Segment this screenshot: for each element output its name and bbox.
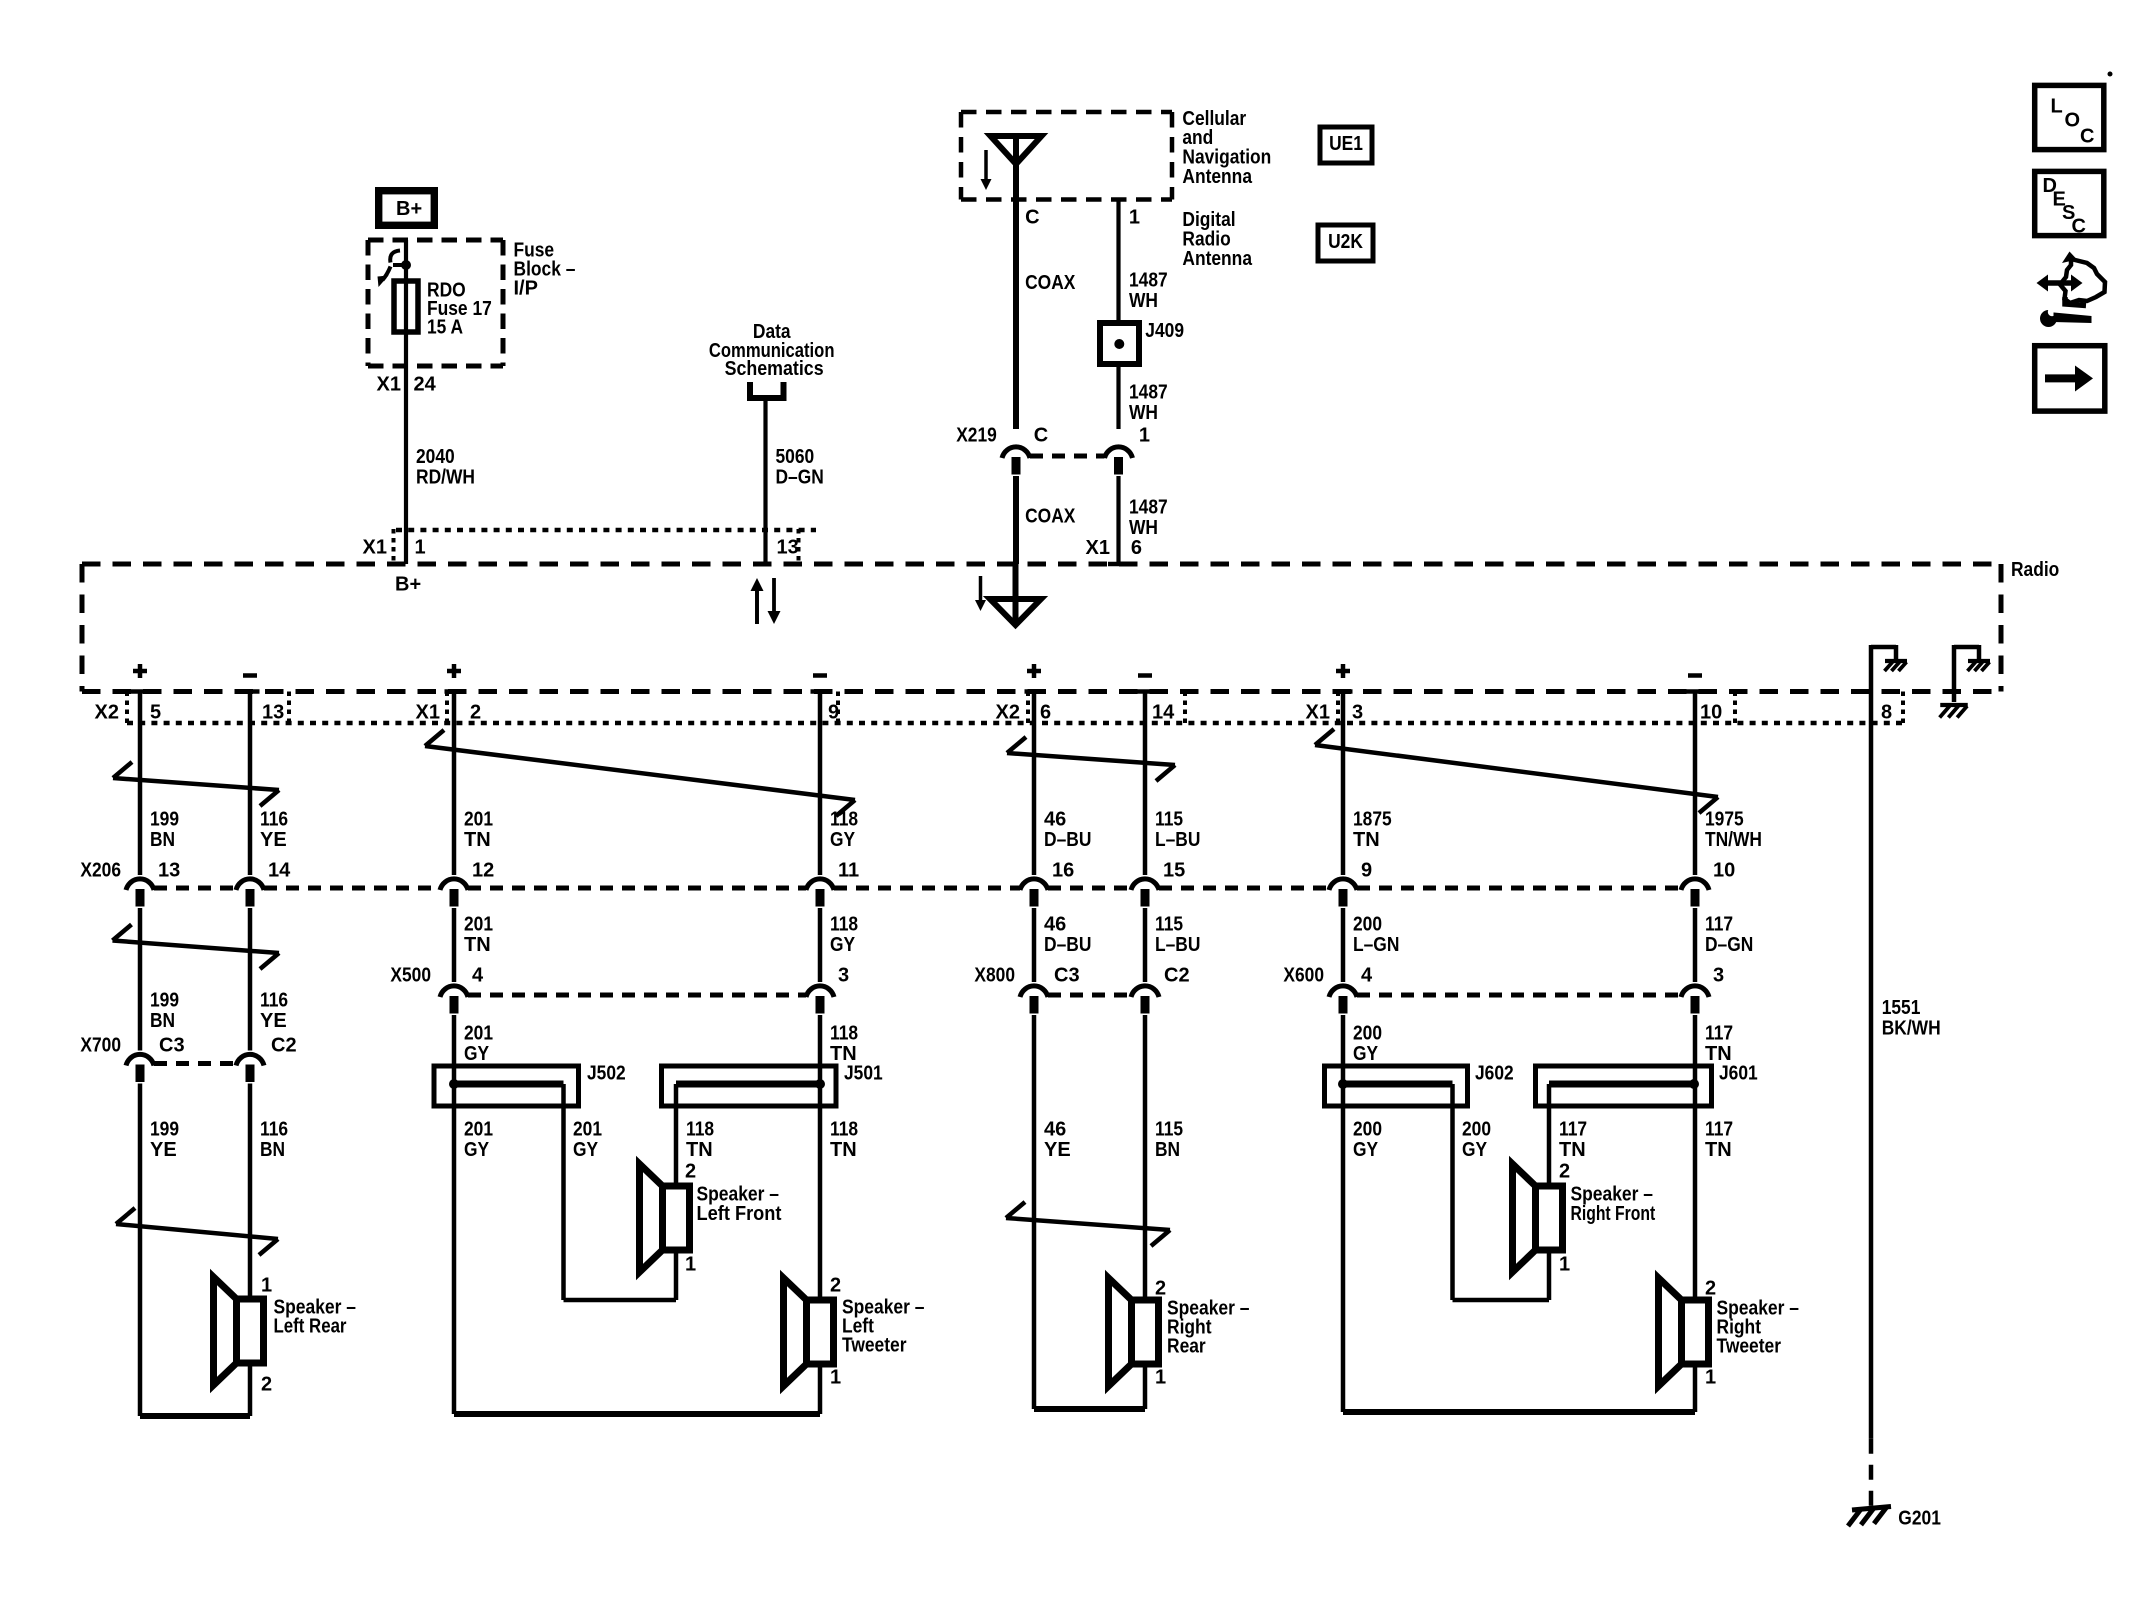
svg-text:Left Front: Left Front [697, 1203, 782, 1225]
svg-text:24: 24 [414, 374, 437, 396]
svg-text:X219: X219 [956, 425, 997, 447]
svg-text:1: 1 [1129, 207, 1140, 229]
svg-text:GY: GY [1462, 1139, 1488, 1161]
svg-text:YE: YE [260, 829, 287, 851]
svg-text:X1: X1 [377, 374, 401, 396]
svg-text:13: 13 [262, 702, 284, 724]
svg-text:1: 1 [685, 1254, 696, 1276]
svg-text:COAX: COAX [1025, 506, 1076, 528]
svg-text:8: 8 [1881, 702, 1892, 724]
svg-text:116: 116 [260, 990, 288, 1012]
svg-text:J602: J602 [1475, 1063, 1514, 1085]
svg-text:TN/WH: TN/WH [1705, 829, 1762, 851]
svg-text:200: 200 [1353, 1023, 1382, 1045]
svg-text:Tweeter: Tweeter [1717, 1336, 1782, 1358]
svg-text:14: 14 [1152, 702, 1175, 724]
svg-text:1487: 1487 [1129, 497, 1168, 519]
svg-text:C: C [1034, 425, 1048, 447]
svg-text:2: 2 [1705, 1278, 1716, 1300]
svg-text:Antenna: Antenna [1182, 248, 1252, 270]
svg-text:2: 2 [261, 1374, 272, 1396]
svg-text:BN: BN [150, 829, 175, 851]
svg-text:11: 11 [838, 860, 859, 882]
svg-text:1487: 1487 [1129, 270, 1168, 292]
svg-text:L–BU: L–BU [1155, 829, 1200, 851]
svg-text:X1: X1 [1086, 537, 1110, 559]
svg-text:15: 15 [1163, 860, 1185, 882]
svg-text:TN: TN [830, 1043, 857, 1065]
svg-text:L: L [2051, 96, 2063, 118]
svg-text:117: 117 [1705, 914, 1733, 936]
svg-text:J601: J601 [1719, 1063, 1758, 1085]
svg-text:BK/WH: BK/WH [1882, 1018, 1941, 1040]
svg-text:C2: C2 [1164, 965, 1190, 987]
svg-text:GY: GY [1353, 1043, 1379, 1065]
svg-text:12: 12 [472, 860, 494, 882]
svg-text:X1: X1 [363, 537, 387, 559]
svg-text:TN: TN [686, 1139, 713, 1161]
svg-text:I/P: I/P [514, 278, 538, 300]
svg-text:116: 116 [260, 809, 288, 831]
svg-text:TN: TN [1353, 829, 1380, 851]
svg-text:D–GN: D–GN [776, 467, 824, 489]
svg-text:201: 201 [464, 809, 493, 831]
svg-text:118: 118 [686, 1119, 714, 1141]
svg-text:X206: X206 [80, 860, 121, 882]
svg-text:B+: B+ [396, 198, 422, 220]
svg-text:3: 3 [1713, 965, 1724, 987]
svg-text:2: 2 [1559, 1161, 1570, 1183]
svg-text:1: 1 [1139, 425, 1150, 447]
svg-text:U2K: U2K [1328, 231, 1363, 253]
svg-text:Left Rear: Left Rear [274, 1316, 347, 1338]
svg-text:GY: GY [464, 1043, 490, 1065]
svg-text:C: C [2072, 216, 2086, 238]
svg-text:6: 6 [1040, 702, 1051, 724]
svg-text:118: 118 [830, 1119, 858, 1141]
svg-text:199: 199 [150, 809, 179, 831]
svg-text:WH: WH [1129, 290, 1158, 312]
svg-text:118: 118 [830, 809, 858, 831]
svg-text:1: 1 [415, 537, 426, 559]
svg-text:TN: TN [464, 934, 491, 956]
svg-text:YE: YE [1044, 1139, 1071, 1161]
svg-text:BN: BN [260, 1139, 285, 1161]
svg-text:COAX: COAX [1025, 272, 1076, 294]
svg-text:UE1: UE1 [1329, 133, 1363, 155]
svg-text:RD/WH: RD/WH [416, 467, 475, 489]
svg-text:46: 46 [1044, 914, 1066, 936]
svg-text:X2: X2 [95, 702, 119, 724]
svg-text:201: 201 [464, 1023, 493, 1045]
svg-text:1551: 1551 [1882, 997, 1921, 1019]
svg-text:46: 46 [1044, 809, 1066, 831]
svg-text:TN: TN [1705, 1139, 1732, 1161]
svg-text:201: 201 [464, 1119, 493, 1141]
svg-text:BN: BN [150, 1010, 175, 1032]
svg-text:199: 199 [150, 1119, 179, 1141]
svg-text:GY: GY [464, 1139, 490, 1161]
svg-text:YE: YE [150, 1139, 177, 1161]
svg-text:TN: TN [1559, 1139, 1586, 1161]
svg-text:1487: 1487 [1129, 382, 1168, 404]
svg-text:1: 1 [261, 1275, 272, 1297]
svg-text:TN: TN [830, 1139, 857, 1161]
svg-text:1: 1 [1705, 1367, 1716, 1389]
svg-text:X700: X700 [80, 1035, 121, 1057]
svg-text:TN: TN [464, 829, 491, 851]
svg-text:2: 2 [830, 1275, 841, 1297]
svg-text:3: 3 [838, 965, 849, 987]
svg-text:6: 6 [1131, 537, 1142, 559]
svg-text:WH: WH [1129, 402, 1158, 424]
svg-text:10: 10 [1700, 702, 1722, 724]
svg-text:1: 1 [1155, 1367, 1166, 1389]
svg-text:TN: TN [1705, 1043, 1732, 1065]
svg-text:16: 16 [1052, 860, 1074, 882]
svg-text:X2: X2 [996, 702, 1020, 724]
svg-text:Tweeter: Tweeter [842, 1335, 907, 1357]
svg-text:C: C [2080, 125, 2094, 147]
svg-text:2: 2 [685, 1161, 696, 1183]
svg-text:13: 13 [158, 860, 180, 882]
svg-text:J501: J501 [844, 1063, 883, 1085]
svg-text:117: 117 [1705, 1119, 1733, 1141]
svg-text:118: 118 [830, 1023, 858, 1045]
svg-text:D–GN: D–GN [1705, 934, 1753, 956]
svg-text:1: 1 [830, 1367, 841, 1389]
svg-text:D–BU: D–BU [1044, 829, 1091, 851]
svg-text:115: 115 [1155, 1119, 1183, 1141]
svg-text:9: 9 [828, 702, 839, 724]
svg-text:200: 200 [1353, 1119, 1382, 1141]
svg-text:4: 4 [472, 965, 484, 987]
svg-text:117: 117 [1705, 1023, 1733, 1045]
svg-text:Schematics: Schematics [725, 358, 824, 380]
svg-text:15 A: 15 A [427, 317, 463, 339]
svg-text:2040: 2040 [416, 446, 455, 468]
svg-text:X1: X1 [1306, 702, 1330, 724]
svg-text:Rear: Rear [1167, 1336, 1206, 1358]
svg-text:J502: J502 [587, 1063, 626, 1085]
svg-text:C3: C3 [1054, 965, 1080, 987]
svg-text:201: 201 [464, 914, 493, 936]
svg-text:J409: J409 [1145, 320, 1184, 342]
svg-text:1: 1 [1559, 1254, 1570, 1276]
svg-text:X1: X1 [416, 702, 440, 724]
svg-text:199: 199 [150, 990, 179, 1012]
svg-text:1875: 1875 [1353, 809, 1392, 831]
svg-text:3: 3 [1352, 702, 1363, 724]
svg-text:10: 10 [1713, 860, 1735, 882]
svg-text:C3: C3 [159, 1035, 185, 1057]
svg-text:YE: YE [260, 1010, 287, 1032]
svg-text:200: 200 [1462, 1119, 1491, 1141]
svg-text:5: 5 [150, 702, 161, 724]
svg-text:C: C [1025, 207, 1039, 229]
svg-text:4: 4 [1361, 965, 1373, 987]
svg-text:117: 117 [1559, 1119, 1587, 1141]
svg-text:X600: X600 [1283, 965, 1324, 987]
svg-text:Antenna: Antenna [1182, 166, 1252, 188]
svg-text:200: 200 [1353, 914, 1382, 936]
svg-text:GY: GY [830, 934, 856, 956]
svg-text:B+: B+ [395, 574, 421, 596]
svg-text:2: 2 [470, 702, 481, 724]
svg-text:201: 201 [573, 1119, 602, 1141]
svg-text:1975: 1975 [1705, 809, 1744, 831]
svg-text:2: 2 [1155, 1278, 1166, 1300]
svg-text:46: 46 [1044, 1119, 1066, 1141]
svg-text:5060: 5060 [776, 446, 815, 468]
svg-text:115: 115 [1155, 809, 1183, 831]
svg-text:G201: G201 [1898, 1508, 1941, 1530]
svg-text:GY: GY [830, 829, 856, 851]
svg-text:L–GN: L–GN [1353, 934, 1399, 956]
svg-text:X500: X500 [390, 965, 431, 987]
svg-text:D–BU: D–BU [1044, 934, 1091, 956]
svg-text:O: O [2065, 110, 2081, 132]
svg-text:9: 9 [1361, 860, 1372, 882]
svg-text:X800: X800 [974, 965, 1015, 987]
svg-text:115: 115 [1155, 914, 1183, 936]
svg-text:Right Front: Right Front [1571, 1203, 1656, 1225]
svg-text:14: 14 [268, 860, 291, 882]
svg-text:L–BU: L–BU [1155, 934, 1200, 956]
svg-text:118: 118 [830, 914, 858, 936]
svg-text:GY: GY [573, 1139, 599, 1161]
svg-text:Radio: Radio [2011, 559, 2059, 581]
svg-text:116: 116 [260, 1119, 288, 1141]
svg-text:GY: GY [1353, 1139, 1379, 1161]
svg-text:C2: C2 [271, 1035, 297, 1057]
svg-text:BN: BN [1155, 1139, 1180, 1161]
svg-text:13: 13 [777, 537, 799, 559]
svg-text:WH: WH [1129, 517, 1158, 539]
